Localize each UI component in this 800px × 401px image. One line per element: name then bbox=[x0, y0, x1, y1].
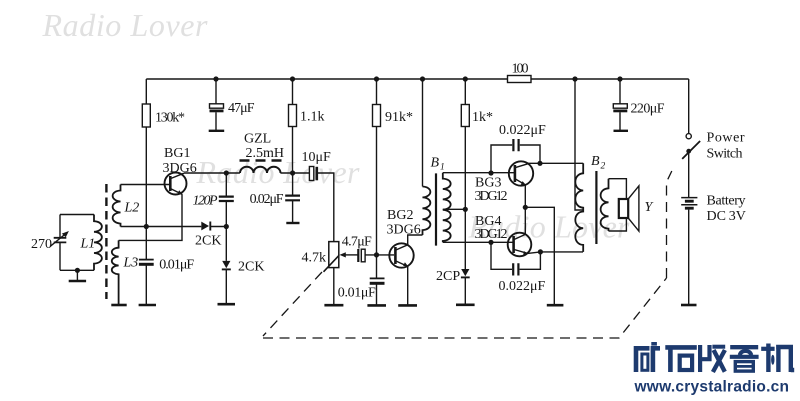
svg-text:2CP: 2CP bbox=[436, 269, 460, 284]
svg-text:120P: 120P bbox=[193, 194, 218, 209]
node rail junction at B2 tap feed bbox=[572, 76, 577, 81]
capacitor C 0.022uF bottom bbox=[491, 242, 540, 269]
node GZL right junction bbox=[290, 170, 295, 175]
potentiometer wiper arrow bbox=[343, 254, 358, 256]
wire BG3 collector line to B2 bbox=[529, 162, 584, 164]
wire L1 tank bottom bbox=[60, 269, 94, 271]
transistor BG4 base bar bbox=[512, 236, 515, 253]
svg-text:91k*: 91k* bbox=[385, 110, 413, 125]
node rail junction at 47uF bbox=[213, 76, 218, 81]
wire 0.01uF right branch bbox=[376, 255, 378, 305]
wire 0.01uF branch bbox=[145, 227, 147, 305]
node power switch moving contact dot bbox=[686, 149, 691, 154]
transformer core dashed line between L1 and L2 L3 bbox=[105, 184, 107, 299]
inductor L2 winding bbox=[113, 185, 121, 227]
transistor BG1 circle bbox=[165, 173, 187, 195]
svg-text:0.022μF: 0.022μF bbox=[499, 123, 546, 138]
svg-text:2: 2 bbox=[601, 162, 606, 172]
svg-text:Radio Lover: Radio Lover bbox=[42, 7, 209, 43]
wire 2CP to ground bbox=[464, 277, 466, 304]
wire 4.7k to ground bbox=[333, 268, 335, 305]
wire 47uF branch bbox=[215, 79, 217, 131]
node rail junction at 91k bbox=[374, 76, 379, 81]
transformer B1 secondary winding bbox=[443, 173, 451, 243]
logo shou character bbox=[700, 345, 725, 372]
svg-text:BG2: BG2 bbox=[387, 208, 413, 223]
svg-text:BG1: BG1 bbox=[164, 146, 190, 161]
potentiometer 4.7k body bbox=[329, 242, 339, 268]
svg-text:2CK: 2CK bbox=[195, 234, 221, 249]
capacitor C 4.7uF electrolytic bbox=[357, 249, 359, 262]
wire top supply rail bbox=[146, 78, 688, 80]
node BG2 base junction bbox=[374, 252, 379, 257]
ground stub under 47uF bbox=[209, 130, 225, 132]
capacitor C 0.01uF left bbox=[139, 259, 154, 261]
wire B1 primary feed vertical bbox=[422, 79, 424, 187]
svg-text:0.01μF: 0.01μF bbox=[159, 258, 194, 273]
wire BG2 emitter to ground bbox=[407, 266, 409, 305]
wire 130k branch vertical bbox=[145, 79, 147, 227]
svg-text:1k*: 1k* bbox=[472, 110, 493, 125]
ground 4.7k bbox=[324, 304, 343, 307]
wire BG1 base line from L2 top bbox=[121, 184, 170, 186]
speaker Y cone bbox=[628, 186, 639, 231]
resistor R 100 horizontal bbox=[508, 76, 532, 83]
transistor BG4 emitter bbox=[514, 250, 528, 254]
transistor BG3 emitter bbox=[515, 179, 525, 185]
ground 0.01uF left bbox=[139, 304, 156, 307]
capacitor C 120P bbox=[219, 197, 234, 201]
transformer B1 primary winding bbox=[423, 187, 431, 236]
wire 0.02uF branch bbox=[292, 173, 294, 223]
node BG1 collector GZL left junction bbox=[224, 170, 229, 175]
ground stub under 220uF bbox=[614, 130, 629, 132]
wire B1 center tap bbox=[443, 208, 466, 210]
ground battery bbox=[681, 304, 697, 307]
L1 tank left vertical wire bbox=[59, 215, 61, 271]
transistor BG2 emitter bbox=[396, 261, 408, 266]
capacitor C 0.01uF right bbox=[370, 277, 385, 279]
wire switch to battery bbox=[688, 151, 690, 197]
wire midpoint to ground branch bbox=[525, 207, 554, 304]
node L2 bottom junction bbox=[144, 224, 149, 229]
resistor R 130k* bbox=[142, 104, 150, 127]
svg-text:4.7k: 4.7k bbox=[302, 251, 327, 266]
transformer B2 secondary winding bbox=[601, 179, 609, 231]
node B1 tap junction bbox=[463, 207, 468, 212]
svg-text:L1: L1 bbox=[80, 237, 96, 252]
capacitor C 220uF electrolytic bbox=[613, 104, 627, 108]
wire BG1 collector to GZL node bbox=[184, 172, 240, 174]
wire L2 bottom to 2CK node bbox=[121, 226, 227, 228]
transistor BG3 circle bbox=[509, 161, 533, 185]
node midpoint junction bbox=[523, 205, 528, 210]
transistor BG4 collector bbox=[514, 234, 525, 239]
node BG4 base junction bbox=[488, 240, 493, 245]
diode 2CK vertical bbox=[222, 261, 230, 268]
GZL core dashes bbox=[240, 159, 282, 161]
power switch open contact circle bbox=[686, 134, 691, 139]
logo yin character bbox=[730, 347, 759, 371]
svg-text:www.crystalradio.cn: www.crystalradio.cn bbox=[634, 378, 790, 395]
speaker Y coil box bbox=[619, 199, 628, 218]
transistor BG1 emitter bbox=[171, 189, 182, 195]
ground BG2 emitter bbox=[398, 304, 417, 307]
wire B1 secondary bottom to BG4 base bbox=[443, 241, 513, 243]
wire B2 secondary to speaker bottom bbox=[609, 218, 627, 231]
svg-text:3DG6: 3DG6 bbox=[163, 161, 197, 176]
wire 91k branch vertical bbox=[376, 79, 378, 255]
wire BG4 collector bbox=[524, 207, 526, 234]
capacitor C 0.02uF bbox=[285, 196, 300, 201]
node BG3 base junction bbox=[488, 170, 493, 175]
wire BG2 collector to B1 primary bbox=[408, 235, 423, 245]
capacitor C 0.022uF top bbox=[491, 145, 540, 173]
svg-text:100: 100 bbox=[512, 62, 529, 77]
node L1 bottom junction dot bbox=[75, 268, 80, 273]
wire BG4 emitter to B2 bottom bbox=[528, 252, 583, 254]
node 120P bottom junction bbox=[224, 224, 229, 229]
potentiometer diagonal stroke bbox=[324, 255, 340, 272]
inductor L1 winding bbox=[94, 215, 102, 271]
svg-text:B: B bbox=[591, 154, 600, 169]
wire L1 ground stub bbox=[76, 270, 78, 280]
wire B1 secondary top to BG3 base bbox=[443, 172, 514, 174]
wire 10uF to 4.7k pot bbox=[317, 173, 334, 242]
wire 4.7uF to BG2 base bbox=[365, 254, 394, 256]
wire B2 secondary to speaker top bbox=[609, 179, 627, 199]
wire L1 tank top bbox=[60, 214, 94, 216]
svg-text:3DG12: 3DG12 bbox=[475, 189, 508, 204]
transistor BG4 circle bbox=[508, 233, 532, 257]
capacitor C 47uF electrolytic bbox=[210, 104, 224, 108]
ground 2CP bbox=[456, 303, 475, 306]
logo shi character bbox=[665, 347, 697, 372]
wire 120P branch bbox=[225, 173, 227, 305]
svg-text:270: 270 bbox=[31, 237, 52, 252]
resistor R 1.1k bbox=[289, 105, 297, 127]
logo kuang character bbox=[636, 342, 660, 372]
wire 1.1k branch vertical bbox=[292, 79, 294, 173]
node rail junction at B1 feed bbox=[420, 76, 425, 81]
node BG4 emitter junction bbox=[538, 249, 543, 254]
ground 2CK branch bbox=[218, 303, 236, 306]
diode 2CP bbox=[461, 269, 469, 276]
svg-text:L3: L3 bbox=[123, 256, 139, 271]
svg-text:130k*: 130k* bbox=[155, 111, 185, 126]
svg-text:220μF: 220μF bbox=[631, 102, 665, 117]
transistor BG2 circle bbox=[389, 243, 413, 267]
resistor R 1k* bbox=[461, 105, 469, 127]
ground stub 0.02uF bbox=[286, 222, 299, 224]
wire BG1 emitter down and left to L3 bbox=[119, 194, 182, 240]
svg-text:1.1k: 1.1k bbox=[300, 110, 325, 125]
variable capacitor 270 plates bbox=[54, 238, 67, 243]
svg-text:47μF: 47μF bbox=[228, 101, 255, 116]
svg-text:1: 1 bbox=[440, 163, 445, 173]
transformer B2 core bbox=[595, 171, 597, 244]
svg-text:0.022μF: 0.022μF bbox=[499, 279, 546, 294]
node BG3 collector junction bbox=[537, 161, 542, 166]
inductor GZL choke 2.5mH bbox=[240, 167, 281, 173]
node rail junction at 1.1k bbox=[290, 76, 295, 81]
dashed module boundary polyline bbox=[263, 171, 672, 338]
svg-text:0.02μF: 0.02μF bbox=[250, 192, 284, 207]
svg-text:L2: L2 bbox=[124, 201, 140, 216]
transistor BG2 collector bbox=[396, 245, 408, 250]
svg-text:B: B bbox=[431, 156, 440, 171]
wire GZL right to 10uF bbox=[280, 172, 309, 174]
svg-text:Battery: Battery bbox=[707, 194, 746, 209]
svg-text:Power: Power bbox=[707, 131, 745, 146]
svg-text:4.7μF: 4.7μF bbox=[342, 235, 372, 250]
wire 1k branch vertical bbox=[464, 79, 466, 269]
wire battery to ground bbox=[688, 210, 690, 305]
diode 2CK horizontal bbox=[201, 222, 209, 231]
wire battery branch top bbox=[688, 79, 690, 134]
svg-text:GZL: GZL bbox=[244, 132, 271, 147]
ground 0.01uF right bbox=[367, 304, 386, 307]
transistor BG3 base bar bbox=[514, 165, 517, 182]
transformer B1 core bbox=[435, 173, 437, 245]
ground L3 bbox=[111, 304, 126, 307]
svg-text:Y: Y bbox=[645, 200, 655, 215]
transistor BG1 collector bbox=[171, 173, 184, 178]
power switch lever bbox=[682, 141, 700, 159]
svg-text:10μF: 10μF bbox=[302, 150, 332, 165]
logo ji character bbox=[761, 344, 794, 373]
transformer B2 primary winding center tapped bbox=[575, 163, 583, 252]
node rail junction at 1k bbox=[463, 76, 468, 81]
svg-text:0.01μF: 0.01μF bbox=[338, 286, 376, 301]
svg-text:2CK: 2CK bbox=[238, 260, 264, 275]
ground midpoint bbox=[547, 304, 564, 307]
svg-text:DC 3V: DC 3V bbox=[707, 209, 746, 224]
resistor R 91k* bbox=[373, 105, 381, 127]
transistor BG3 collector bbox=[515, 163, 529, 167]
wire B2 feed vertical to primary center tap bbox=[575, 79, 583, 210]
inductor L3 winding bbox=[112, 240, 119, 304]
battery B 3V bbox=[681, 197, 697, 199]
wire BG3 emitter to midpoint bbox=[524, 185, 526, 208]
ground L1 bbox=[69, 280, 86, 283]
capacitor C 10uF electrolytic bbox=[309, 167, 313, 181]
svg-text:2.5mH: 2.5mH bbox=[246, 146, 285, 161]
node rail junction at 220uF bbox=[617, 76, 622, 81]
transistor BG2 base bar bbox=[394, 247, 397, 264]
transistor BG1 base bar bbox=[169, 176, 172, 191]
variable capacitor arrow bbox=[50, 234, 65, 247]
wire 220uF branch bbox=[619, 79, 621, 131]
svg-text:Switch: Switch bbox=[707, 147, 743, 162]
